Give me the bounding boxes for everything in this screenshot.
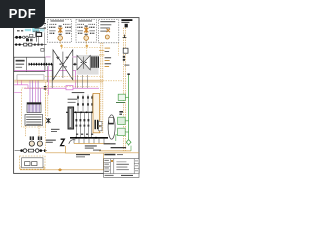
label: alarm caption row 1 <box>104 143 116 144</box>
wire: green stub 1 <box>125 96 128 98</box>
distribution cabinet box <box>22 158 43 168</box>
orange tick crossing risers lower <box>99 54 104 56</box>
wire: battery output right <box>38 126 40 137</box>
label: panel caption line 1 <box>68 99 78 100</box>
node: feeder dot A <box>15 36 18 39</box>
wire: arrester drop to bottom feeder <box>66 146 103 153</box>
breaker B1 top tick <box>56 57 59 59</box>
isolator symbol (filled) <box>125 24 128 28</box>
wire: S1 stem <box>36 31 38 42</box>
wire: magenta horizontal upper <box>14 69 75 71</box>
label: left cluster text <box>35 27 46 30</box>
wire: right feeder vertical <box>130 146 132 151</box>
label: battery room title (bold) <box>121 19 132 21</box>
node: unit 1 output diamond <box>60 44 63 47</box>
cubicle breaker bar B <box>97 120 98 129</box>
transformer T1 (center of unit 1) <box>58 27 62 33</box>
label: lineup caption <box>72 92 85 93</box>
breaker B2 top tick <box>66 57 69 59</box>
lower breaker marks <box>76 119 90 121</box>
node: main bus dots <box>75 137 97 139</box>
label: TB tag <box>104 154 115 156</box>
aux contact box A <box>99 121 102 125</box>
wire: orange dashed branch upper <box>45 75 103 77</box>
surge arrester (Z symbol) <box>61 139 65 145</box>
motor-generator M1 winding bars <box>30 136 34 140</box>
inverter panel divider <box>26 57 28 71</box>
wire: left feeder <box>14 36 35 38</box>
aux contact box B <box>99 127 102 131</box>
wire: bottom-right orange header 1 <box>99 150 131 152</box>
wire: green stub 2 <box>125 120 128 122</box>
meter marks row <box>34 44 43 46</box>
title block outer <box>104 159 139 178</box>
wire: green branch left <box>116 135 118 141</box>
transformer T2 ticks <box>85 26 88 35</box>
label: bus tick annotation 0b <box>105 51 110 52</box>
rectifier circle unit 2 <box>84 36 89 41</box>
label: feeder note line 2 <box>76 155 85 158</box>
right column row lines <box>134 164 139 169</box>
label: unit 1 title text <box>51 20 65 21</box>
node: feeder arrow diamond <box>58 168 63 171</box>
wire: green stub 3 <box>125 131 128 133</box>
pink tie marks at breaker top right <box>72 56 76 57</box>
isolator contact marks <box>123 56 125 61</box>
motor-generator M1 circle <box>29 141 34 146</box>
wire: riser to bottom web <box>46 152 66 154</box>
lower feeder drops <box>76 113 91 137</box>
wire: unit2 dashed drop long <box>86 48 88 55</box>
wire: bottom-right orange header 2 <box>103 152 139 154</box>
wire: charger feed vertical pair <box>101 64 103 134</box>
winding block bars <box>91 56 99 67</box>
auxiliary relay <box>41 49 44 52</box>
breaker stack right, unit 2 <box>89 27 95 33</box>
wire: bottom orange feeder <box>20 169 103 171</box>
label: bus tick annotation 0a <box>105 48 111 49</box>
label: bus tick annotation 1 <box>105 57 112 58</box>
wire: arc jumper <box>69 140 76 144</box>
terminal strip box <box>17 75 44 81</box>
label: machine caption line 2 <box>46 142 53 143</box>
label: junction note <box>93 150 101 151</box>
transducer on loop <box>109 117 114 123</box>
label: bus caption line 1 <box>85 145 97 146</box>
node: output dot right <box>40 149 43 152</box>
label: unit 3 text row 1 <box>100 21 115 22</box>
wire: orange collector under bus <box>74 143 110 145</box>
label: left cluster text 2 <box>33 30 40 33</box>
right column cell marks <box>135 161 138 172</box>
feeder breaker marks row lower <box>77 103 93 105</box>
label: alarm caption row 2 <box>111 147 127 148</box>
earth link symbol <box>123 35 127 38</box>
relay marks above monitor 2 <box>119 111 123 115</box>
highlighted note (cyan) right <box>40 28 44 31</box>
sub-feeder drops below bus <box>74 139 104 144</box>
battery plates box <box>25 115 43 126</box>
label: monitor 1 caption <box>116 102 125 103</box>
shunt resistor block <box>28 149 33 152</box>
label: feeder note line 1 <box>76 154 90 155</box>
disconnect switch S1 <box>36 33 42 37</box>
shunt circle left <box>23 149 27 153</box>
feeder breaker marks row upper <box>77 96 93 98</box>
cabinet breaker cell right <box>32 162 37 166</box>
valve symbol (bowtie) on riser <box>46 118 50 123</box>
charger element unit 3 <box>107 29 111 33</box>
node: output dot left <box>20 149 23 152</box>
DC isolator box <box>123 48 128 53</box>
contactor K1 <box>24 43 27 46</box>
label: TB tag suffix <box>117 154 123 155</box>
label: bus tick annotation 4 <box>105 66 110 67</box>
wire: unit1 dashed drop to bus <box>61 48 63 50</box>
end tick right <box>44 149 45 152</box>
pink tie marks at breaker top left <box>46 56 51 57</box>
battery cell stack (hatched) <box>27 103 41 113</box>
wire: cabinet drop left <box>19 166 21 169</box>
terminal column marks <box>44 23 46 29</box>
bus-tie center post <box>62 52 64 78</box>
label: unit 3 text row 3 <box>100 27 110 28</box>
label: riser caption line 1 <box>51 129 60 130</box>
logo cell mark <box>111 160 113 162</box>
wire: green supervision line <box>128 74 130 146</box>
bus riser stubs above orange pair <box>47 66 87 88</box>
wire: left orange dashed riser pair <box>46 82 48 153</box>
battery bank dashed enclosure <box>22 88 46 127</box>
node: feeder dot B <box>19 36 22 39</box>
breaker stack right, unit 1 <box>65 27 71 33</box>
transformer T2 (center of unit 2) <box>84 27 88 33</box>
DC bus hatch ticks right <box>72 63 99 66</box>
wire: orange distribution pair lower <box>14 81 103 83</box>
wire: magenta horizontal lower <box>24 87 99 89</box>
drawing frame border <box>14 18 139 174</box>
battery plates lines <box>26 117 41 124</box>
inverter panel box <box>14 57 45 71</box>
DC distribution cubicle (orange) <box>93 93 100 132</box>
wire: S1 drop to row <box>38 37 40 45</box>
junction box (magenta) <box>66 86 73 90</box>
revision cell marks <box>104 160 109 172</box>
label: right column caption <box>124 65 129 66</box>
label: panel text row 2 <box>16 64 25 65</box>
terminal bold marks left margin <box>44 86 47 90</box>
wire: pink drop 2 <box>20 81 22 85</box>
wire: cabinet drop right <box>43 166 45 169</box>
node: sub-bus dots <box>69 111 93 113</box>
dashed enclosure: charger unit 3 <box>99 20 119 43</box>
alarm diamond (green) <box>126 140 131 145</box>
terminal row unit 1 <box>50 23 71 25</box>
label: bus caption line 2 <box>85 148 94 149</box>
node: row dot B <box>18 43 20 45</box>
wire: right orange dashed pair <box>124 28 126 151</box>
wire: battery leads bundle <box>30 81 41 104</box>
wire: unit 3 double drop <box>101 43 103 64</box>
title block right column <box>133 159 135 174</box>
DC panel feeder drops <box>78 95 92 112</box>
title block inner divider <box>113 159 115 174</box>
aux box outline <box>30 34 33 37</box>
feeder breaker B3 (left wedge) <box>77 55 84 69</box>
title block bottom strip divider <box>104 173 139 175</box>
feeder breaker center post <box>83 57 85 69</box>
highlighted note (cyan) center <box>32 28 39 33</box>
label: panel text row 1 <box>16 60 25 62</box>
wire: battery output left <box>25 126 27 137</box>
relay contact marks upper <box>17 30 23 31</box>
label: unit 2 title text <box>79 20 93 21</box>
label: unit 3 text row 4 <box>100 31 108 32</box>
wire: unit 2 drop <box>85 40 87 44</box>
revision row lines <box>104 162 111 170</box>
label: drawing title line 1 <box>116 160 126 163</box>
breaker B3 waist tick <box>81 62 83 63</box>
node: row dot A <box>15 43 17 45</box>
label: bus tick annotation 2 <box>105 60 110 61</box>
battery cell hatch lines <box>28 103 39 112</box>
wire: box3 side dashed stub <box>118 43 120 56</box>
feeder breaker B4 (right wedge) <box>84 55 91 69</box>
breaker waist label tick <box>64 65 67 68</box>
label: riser caption line 2 <box>51 131 57 132</box>
wire: pink drop 1 <box>17 81 19 85</box>
breaker stack left, unit 1 <box>49 27 55 33</box>
title block revision column <box>109 159 111 174</box>
wire: pink drop from bus <box>48 66 50 95</box>
fuse F2 <box>30 39 33 42</box>
main DC bus (thick) <box>70 137 108 139</box>
rectifier circle unit 1 <box>58 36 63 41</box>
highlighted note (cyan) left <box>25 29 31 31</box>
wire: cross-tie dashed to right column <box>103 80 124 82</box>
fuse F1 <box>26 39 29 42</box>
label: bus tick annotation 3 <box>105 63 112 64</box>
wire: unit 1 drop <box>59 40 61 44</box>
label: drawing title line 2 <box>116 164 128 165</box>
bus-tie breaker B1 (left wedge) <box>53 50 63 80</box>
contactor K2 <box>29 43 32 46</box>
label: bottom strip text right <box>121 175 133 176</box>
battery cell top bar <box>27 103 41 105</box>
bus-tie breaker B2 (right wedge) <box>63 50 73 80</box>
dashed enclosure: rectifier unit 1 <box>48 20 72 43</box>
wire: pink horizontal feeder <box>14 84 28 86</box>
wire: orange distribution pair upper <box>14 79 103 81</box>
lower breaker marks second row <box>76 125 90 127</box>
label: panel text row 3 <box>16 67 23 68</box>
breaker waist center tick <box>60 64 62 65</box>
node: unit 2 output diamond <box>85 44 88 47</box>
terminal ticks above main bus <box>76 134 93 135</box>
transformer T1 ticks <box>59 26 62 35</box>
dashed enclosure: rectifier unit 2 <box>76 20 96 43</box>
pilot lamp circle B <box>26 36 28 38</box>
switchgear shading <box>77 55 99 75</box>
label: drawing title line 3 <box>116 166 127 169</box>
PDF badge <box>0 0 45 28</box>
monitor box 1 (green) <box>118 94 125 100</box>
label: battery room subtitle <box>121 22 129 23</box>
wire: lower feeder row <box>14 44 46 46</box>
label: drawing title line 4 <box>116 168 128 171</box>
wire: pink elbow down <box>27 85 29 89</box>
label: machine caption line 1 <box>46 140 56 141</box>
cabinet dashed enclosure <box>20 156 45 169</box>
orange tick crossing risers upper <box>99 50 104 52</box>
wire: black drop from bus <box>51 65 53 88</box>
main DC cabinet (dark) <box>68 107 74 129</box>
monitor box 3 (green) <box>118 128 126 135</box>
cabinet breaker cell left <box>25 162 30 166</box>
transducer base <box>108 123 113 125</box>
green line top tick <box>127 73 129 75</box>
cabinet inner stripe <box>70 109 72 127</box>
label: bottom strip text left <box>105 175 114 176</box>
dashed terminal column <box>44 21 46 34</box>
label: unit 3 text row 2 <box>100 24 111 25</box>
wire: pink stub lower <box>14 92 21 94</box>
instrument loop ellipse <box>108 115 115 139</box>
label: panel caption line 2 <box>68 101 76 104</box>
DC bus with hatch marks <box>29 63 99 65</box>
cubicle breaker bar A <box>95 120 96 129</box>
terminal row unit 2 <box>78 23 96 25</box>
wire: units collector dashed horizontal <box>62 47 101 49</box>
battery charger circle unit 3 <box>105 35 109 39</box>
wire: magenta riser <box>75 70 77 88</box>
DC bus hatch ticks <box>29 63 58 66</box>
pilot lamp circle A <box>23 36 25 38</box>
monitor box 2 (green) <box>118 117 126 124</box>
shunt circle right <box>35 149 39 153</box>
sub-bus under drops <box>66 111 99 113</box>
wire: orange dashed branch lower <box>45 85 99 87</box>
motor-generator M2 circle <box>37 141 42 146</box>
wire: header drop <box>102 153 104 170</box>
breaker stack left, unit 2 <box>77 27 83 33</box>
motor-generator M2 winding bars <box>38 136 42 140</box>
wire: DC output row <box>15 150 47 152</box>
wire: riser to panel <box>44 33 46 57</box>
breaker B4 waist tick <box>85 62 87 63</box>
